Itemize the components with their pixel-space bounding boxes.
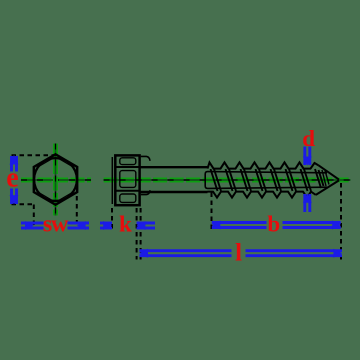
head chamfer arc bottom band [120,194,136,202]
dimension d top line [305,147,310,213]
centerline hex front view vertical [53,144,58,216]
shank bottom line [140,191,208,193]
thread core end cap [205,172,209,189]
svg-text:l: l [235,240,242,267]
extension line sw left [33,205,35,229]
extension line k right [136,208,138,260]
extension line l left [140,208,142,260]
head side view face line top [115,166,139,168]
dimension l line [139,251,342,256]
svg-text:sw: sw [43,212,69,238]
extension line sw right [76,196,78,229]
dimension k line [100,223,155,228]
head side view outline [115,155,139,205]
head chamfer arc middle band [120,171,136,188]
dimension sw line [21,223,89,228]
thread flank lines [211,169,324,191]
head side view face line bottom [115,190,139,192]
head side view back edge [111,157,113,204]
hex head front view outer hexagon [34,154,77,204]
svg-text:e: e [6,163,18,194]
thread core line bottom [209,187,327,188]
hex head front view inner chamfer edges [37,158,74,201]
svg-text:k: k [119,212,132,237]
dimension d arrows [303,157,312,166]
thread crest outline top [208,162,319,168]
extension line k left [111,208,113,229]
dimension k arrows [103,221,112,230]
dimension l arrows [139,249,148,258]
thread core line top [209,172,327,173]
washer face stub top [141,156,150,160]
centerline side view [104,178,351,183]
dimension sw arrows [25,221,34,230]
shank top line [140,166,208,168]
extension line e bottom [12,203,36,205]
extension line b left [211,193,213,230]
svg-text:b: b [267,212,280,237]
dimension e arrows [10,155,19,165]
extension line l b right [340,183,342,260]
dimension b line [212,223,341,228]
tip cone top edge [318,165,339,179]
head chamfer arc top band [120,158,136,165]
centerline hex front view horizontal [21,178,91,183]
inscribed circle [34,158,77,201]
tip cone bottom edge [316,180,339,195]
svg-text:d: d [302,126,315,151]
extension line e top [12,154,57,156]
tip inner marks [322,170,329,186]
washer face stub bottom [141,190,150,194]
dimension b arrows [212,221,221,230]
dimension e line [12,156,17,204]
thread crest outline bottom [208,192,316,198]
